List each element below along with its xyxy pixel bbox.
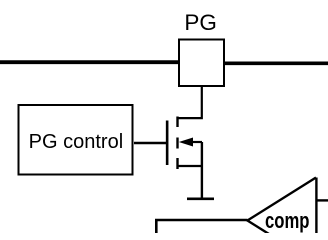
comparator "comp" (partially visible)	[247, 178, 316, 240]
svg-text:PG control: PG control	[29, 131, 123, 153]
transistor: PG pull-down MOSFET	[167, 117, 202, 170]
triangle base	[315, 178, 317, 234]
gate bar	[166, 121, 169, 166]
wire: comparator output	[316, 199, 328, 201]
wire: output bus, right segment	[224, 61, 328, 65]
svg-text:comp: comp	[265, 208, 310, 233]
wire: output bus, left segment	[0, 60, 180, 64]
PG control box	[19, 105, 133, 175]
body arrow	[179, 138, 193, 147]
channel segment: drain side	[176, 117, 178, 128]
ground	[187, 198, 214, 201]
svg-text:PG: PG	[184, 10, 217, 35]
wire: comparator input, from bottom-left up and right to tip	[156, 220, 247, 233]
wire: gate to PG control	[134, 142, 167, 144]
channel segment: source side	[176, 158, 178, 169]
wire: source/body down to ground	[201, 142, 203, 198]
triangle outline	[247, 178, 316, 240]
wire: source stub	[178, 165, 203, 167]
channel segment: body (middle)	[176, 138, 178, 149]
wire: body stub to right rail	[192, 141, 202, 143]
PG switch box	[179, 40, 224, 87]
wire: PG box bottom to MOSFET drain	[179, 87, 202, 118]
